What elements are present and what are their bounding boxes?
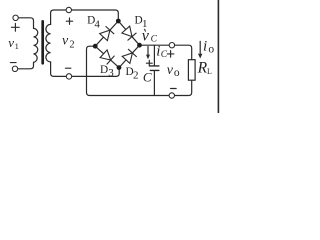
junction node B <box>117 65 122 70</box>
svg-text:4: 4 <box>94 18 100 30</box>
wire secondary top to bridge <box>51 10 119 24</box>
secondary bottom terminal circle <box>66 74 71 79</box>
junction node T <box>116 19 121 24</box>
diode D1 <box>122 26 136 40</box>
minus sign secondary <box>65 67 71 69</box>
bridge edge L-B <box>95 46 119 67</box>
stray tick above vC (scan artifact) <box>144 29 147 31</box>
svg-text:i: i <box>203 39 207 55</box>
svg-text:v: v <box>142 28 150 45</box>
secondary top terminal circle <box>66 7 71 12</box>
input terminal bottom circle <box>12 66 17 71</box>
plus sign input <box>11 23 19 31</box>
wire L vertex to bottom rail <box>87 46 192 95</box>
current arrow io <box>199 41 201 55</box>
plus sign secondary <box>66 18 72 24</box>
diode D3 <box>100 50 114 64</box>
output plus terminal circle <box>169 43 174 48</box>
bridge edge B-R <box>119 45 140 67</box>
output bottom terminal circle <box>169 93 174 98</box>
svg-text:o: o <box>208 44 214 56</box>
wire R vertex to load (plus rail) <box>140 45 192 60</box>
svg-text:R: R <box>197 59 208 76</box>
diode D4 <box>100 27 114 41</box>
svg-text:2: 2 <box>133 70 139 82</box>
current arrow iC <box>147 47 149 57</box>
svg-text:L: L <box>207 67 212 76</box>
capacitor C leads <box>153 45 155 95</box>
plus sign capacitor <box>146 60 152 66</box>
svg-text:1: 1 <box>15 41 19 51</box>
svg-text:C: C <box>161 50 168 60</box>
svg-text:v: v <box>62 34 69 49</box>
svg-text:D: D <box>100 64 108 76</box>
figure right border <box>217 0 219 113</box>
transformer secondary winding <box>46 24 51 62</box>
plus sign output <box>167 51 174 58</box>
wire input top <box>19 18 34 29</box>
svg-text:2: 2 <box>69 39 74 50</box>
input terminal top circle <box>13 15 18 20</box>
capacitor C plates <box>150 66 159 71</box>
resistor RL box <box>188 60 195 80</box>
transformer core <box>41 21 44 63</box>
minus sign input <box>10 62 16 64</box>
junction node R <box>137 43 142 48</box>
junction node L <box>93 44 98 49</box>
svg-text:v: v <box>167 63 174 78</box>
bridge edge T-L <box>95 21 118 46</box>
bridge edge T-R <box>118 21 139 45</box>
svg-text:v: v <box>8 35 14 50</box>
wire input bottom <box>18 62 34 69</box>
svg-text:3: 3 <box>108 67 114 79</box>
transformer primary winding <box>34 28 38 62</box>
minus sign output <box>171 88 177 90</box>
svg-text:o: o <box>174 67 180 79</box>
diode D2 <box>122 49 136 63</box>
svg-text:C: C <box>143 69 152 84</box>
wire secondary bottom to bridge <box>51 62 120 76</box>
